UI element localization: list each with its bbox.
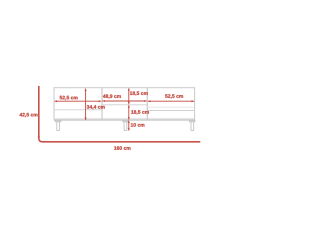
dim line 52,5 left (54, 100, 101, 102)
dim line 10 cm leg vertical (128, 120, 130, 130)
divider left/middle (101, 88, 103, 121)
label 18,5 cm top (130, 91, 148, 95)
label 48,9 cm (103, 94, 121, 98)
overall L dimension line (height / width) (39, 86, 201, 142)
cabinet bottom panel inner line (54, 118, 195, 120)
middle section drawer divider (102, 104, 148, 106)
label 34,4 cm (87, 105, 105, 109)
label 160 cm (114, 146, 130, 150)
leg right (190, 120, 195, 130)
L line bottom arrow (38, 136, 40, 139)
dim line 34,4 vertical (85, 88, 87, 120)
label 18,5 cm bottom (131, 110, 149, 114)
dim line 52,5 right (148, 100, 195, 102)
label 52,5 cm right (165, 94, 183, 98)
divider middle/right (146, 88, 148, 121)
dim line 18,5 top vertical (128, 88, 130, 104)
left section shelf (54, 109, 102, 111)
right section faint line (147, 106, 194, 108)
dim line 18,5 bottom vertical (128, 105, 130, 120)
leg left (56, 120, 61, 130)
label 10 cm (131, 123, 145, 127)
leg middle (123, 120, 128, 130)
cabinet outer box (54, 88, 195, 121)
dim line 48,9 middle (102, 100, 147, 102)
right section shelf (147, 110, 194, 112)
label 42,5 cm (20, 113, 38, 117)
label 52,5 cm left (60, 96, 78, 100)
